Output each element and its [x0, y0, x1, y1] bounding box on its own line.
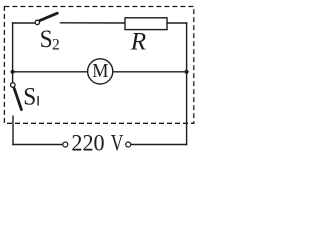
- wire left upper vertical: [12, 22, 14, 82]
- wire middle right: [114, 71, 187, 73]
- node left junction: [11, 70, 15, 74]
- resistor R body: [125, 18, 167, 30]
- wire middle left: [13, 71, 87, 73]
- dashed enclosure (appliance boundary): [4, 7, 193, 124]
- wire top middle (after S2): [60, 22, 125, 24]
- svg-text:M: M: [92, 60, 108, 82]
- node right junction: [185, 70, 189, 74]
- switch S1 blade: [14, 88, 21, 109]
- wire bottom-left horizontal: [12, 144, 62, 146]
- switch S1 contact circle: [11, 83, 16, 88]
- wire right vertical: [186, 22, 188, 145]
- wire left lower vertical: [12, 116, 14, 146]
- wire top-right horizontal: [167, 22, 187, 24]
- svg-text:R: R: [130, 28, 146, 55]
- motor M circle: [88, 59, 113, 84]
- switch S2 blade: [40, 13, 58, 20]
- terminal left circle: [63, 142, 68, 147]
- svg-text:2: 2: [52, 37, 60, 54]
- svg-text:S: S: [40, 26, 53, 53]
- wire bottom-right horizontal: [131, 144, 188, 146]
- switch S2 contact circle: [35, 20, 39, 24]
- svg-text:220: 220: [71, 131, 104, 156]
- terminal right circle: [126, 142, 131, 147]
- svg-text:V: V: [111, 131, 124, 156]
- wire top-left horizontal: [12, 22, 35, 24]
- svg-text:S: S: [23, 84, 36, 111]
